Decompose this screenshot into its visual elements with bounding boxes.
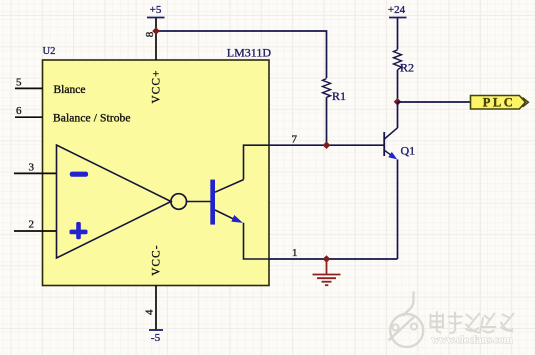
component body U2 (LM311D rectangle): [43, 60, 270, 286]
wire R2 bottom to collector node: [397, 70, 399, 102]
pin 1 wire (ground line): [269, 258, 398, 260]
svg-text:www.elecfans.com: www.elecfans.com: [432, 334, 513, 346]
svg-text:2: 2: [29, 218, 35, 230]
svg-text:Q1: Q1: [401, 144, 416, 158]
internal wiring to pins 7 and 1: [244, 145, 270, 179]
wire to PLC port: [398, 101, 471, 103]
svg-text:VCC+: VCC+: [151, 69, 163, 103]
power symbol +5: [147, 17, 165, 19]
junction R2 / PLC wire / collector: [394, 98, 402, 106]
plus symbol: [70, 230, 88, 235]
svg-text:7: 7: [292, 133, 298, 145]
svg-text:LM311D: LM311D: [227, 46, 272, 60]
pin 3 (inverting input): [14, 172, 57, 174]
transistor Q1: [384, 128, 397, 160]
wire +24 to R2: [397, 18, 399, 50]
internal output transistor of LM311: [187, 180, 244, 225]
pin 4 (V-) vertical: [155, 286, 157, 331]
junction at pin8/+5: [152, 27, 160, 35]
wire R1 bottom to pin-7 net: [326, 97, 328, 145]
comparator triangle: [57, 145, 172, 258]
pin 6: [15, 116, 43, 118]
svg-text:3: 3: [29, 161, 35, 173]
svg-text:6: 6: [16, 105, 22, 117]
watermark logo elecfans: [389, 292, 424, 348]
resistor R2 zigzag: [394, 50, 402, 70]
svg-text:+5: +5: [150, 4, 162, 16]
junction pin1 wire / ground: [323, 255, 331, 263]
svg-text:VCC-: VCC-: [151, 244, 163, 276]
junction R1 / pin7 wire: [323, 141, 331, 149]
svg-text:U2: U2: [43, 46, 56, 57]
svg-text:+24: +24: [388, 4, 406, 16]
pin 2 (non-inverting input): [14, 230, 57, 232]
port PLC: [471, 96, 526, 110]
ground symbol: [313, 259, 341, 285]
svg-text:R1: R1: [332, 89, 346, 103]
pin 7 wire to Q1 base: [269, 144, 384, 146]
svg-text:Blance: Blance: [54, 84, 86, 96]
svg-text:R2: R2: [400, 61, 414, 75]
svg-text:-5: -5: [151, 332, 161, 344]
svg-text:5: 5: [16, 76, 22, 88]
wire collector node down to Q1: [397, 102, 399, 128]
output bubble: [171, 194, 187, 210]
minus symbol: [70, 172, 88, 177]
watermark chinese text 电子发烧友: [431, 312, 514, 333]
pin 8 (V+) vertical: [155, 18, 157, 61]
svg-text:PLC: PLC: [483, 96, 516, 110]
wire Q1 emitter down to pin-1 net: [397, 159, 399, 259]
svg-text:Balance / Strobe: Balance / Strobe: [53, 113, 131, 125]
svg-text:4: 4: [144, 309, 156, 315]
power symbol -5: [149, 329, 163, 331]
power symbol +24: [389, 17, 407, 19]
pin 5: [15, 87, 43, 89]
wire from pin 8 node to R1: [156, 31, 327, 78]
svg-text:1: 1: [292, 247, 298, 259]
resistor R1 zigzag: [323, 79, 331, 98]
